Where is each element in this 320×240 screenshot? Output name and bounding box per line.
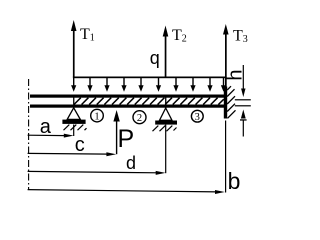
support 2 ground hatching (153, 126, 177, 132)
distributed load line (73, 77, 227, 79)
beam bottom flange (30, 105, 227, 108)
support 2 ground bar (155, 121, 177, 125)
dimension h upper arrow (241, 65, 245, 97)
support 2 triangle (160, 108, 173, 120)
beam end extension line (225, 121, 226, 193)
beam hatching (74, 98, 224, 105)
node label 2 (133, 111, 146, 124)
svg-text:q: q (150, 48, 160, 68)
force T2 (163, 26, 169, 78)
dimension b line (28, 190, 225, 194)
support 2 extension line (165, 125, 166, 174)
force T1 (71, 20, 77, 78)
wall hatching (227, 86, 235, 118)
dimension c line (28, 152, 117, 156)
svg-text:3: 3 (195, 112, 200, 123)
node label 1 (91, 109, 104, 122)
svg-text:d: d (126, 153, 136, 173)
support 1 ground bar (62, 120, 85, 124)
support 1 pin (73, 98, 74, 108)
svg-text:1: 1 (94, 111, 99, 122)
dimension a line (28, 134, 74, 138)
dimension h lower arrow (240, 110, 247, 137)
support 2 pin (165, 98, 166, 109)
dimension h extension line bottom (235, 105, 251, 106)
beam top flange (30, 95, 227, 98)
support 1 ground hatching (64, 125, 87, 131)
support 1 triangle (67, 108, 80, 120)
node label 3 (191, 110, 203, 123)
left datum dash-dot line (28, 79, 30, 190)
svg-text:P: P (118, 125, 135, 153)
svg-text:c: c (75, 134, 85, 156)
svg-text:2: 2 (137, 113, 142, 124)
dimension d line (28, 171, 166, 175)
support 1 extension stub (73, 125, 74, 137)
svg-text:a: a (40, 116, 52, 138)
distributed load arrows (71, 78, 226, 92)
force P (113, 110, 119, 154)
svg-text:b: b (228, 168, 241, 194)
dimension h extension line top (235, 99, 251, 100)
force T3 (223, 24, 229, 88)
wall end plate (support 3) (224, 87, 227, 119)
